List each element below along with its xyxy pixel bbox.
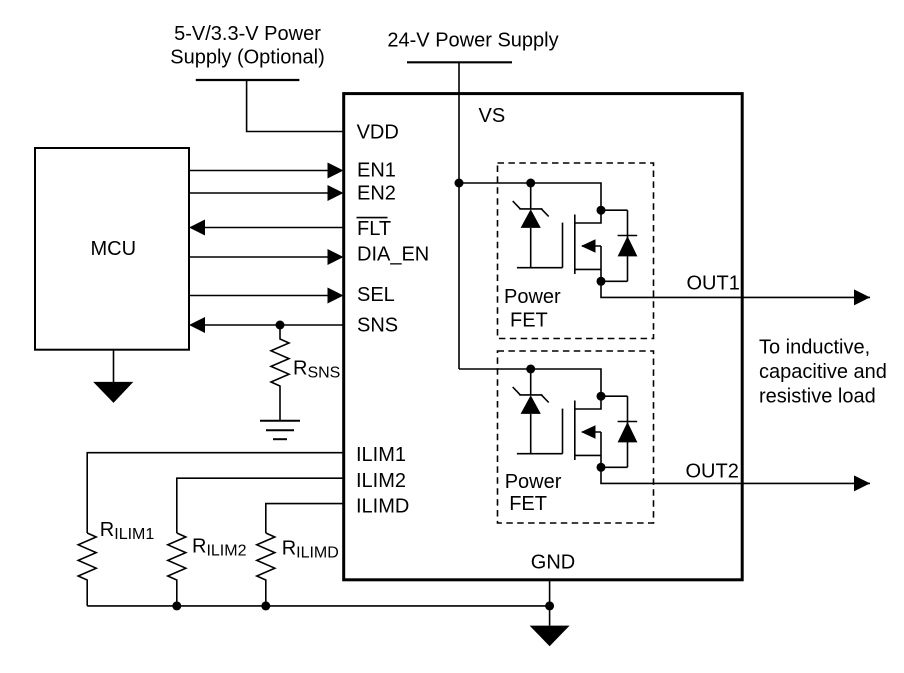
wire Q1 source to OUT1 [601, 246, 870, 297]
node VS tap FET1 [455, 179, 464, 188]
wire 5-V supply to VDD [247, 80, 344, 132]
transistor Q1 source stub [575, 268, 601, 270]
node Q2 source [597, 463, 606, 472]
zener diode Z2 [513, 369, 549, 454]
wire ILIM2 [177, 478, 344, 533]
wire zener2 anode to gate [517, 453, 563, 455]
node zener2 top [526, 365, 535, 374]
label 5-V/3.3-V power supply [170, 23, 325, 69]
wire EN1 [189, 163, 344, 179]
label Power FET 1 [504, 286, 561, 331]
svg-text:SNS: SNS [357, 315, 398, 337]
wire Q2 source to OUT2 [601, 432, 870, 483]
svg-text:VDD: VDD [357, 122, 399, 144]
node SNS tap [276, 321, 285, 330]
svg-text:GND: GND [531, 551, 575, 573]
transistor Q1 gate [562, 223, 564, 268]
transistor Q2 source stub [575, 454, 601, 456]
label Power FET 2 [505, 471, 562, 515]
transistor Q2 substrate arrow [581, 425, 601, 439]
resistor RILIMD [257, 533, 275, 606]
svg-text:EN2: EN2 [357, 183, 396, 205]
wire VS vertical [458, 62, 460, 369]
svg-text:capacitive and: capacitive and [759, 361, 887, 383]
svg-text:24-V Power Supply: 24-V Power Supply [387, 29, 558, 51]
transistor Q2 channel [574, 401, 576, 461]
node Q1 drain [597, 206, 606, 215]
wire SNS [189, 317, 344, 333]
svg-text:FLT: FLT [357, 218, 391, 240]
pin FLT with overline [357, 218, 392, 240]
24-V power supply bar [407, 61, 512, 63]
node zener1 top [526, 179, 535, 188]
body diode D2 [618, 396, 638, 467]
svg-text:ILIM1: ILIM1 [356, 444, 406, 466]
node Q2 drain [597, 392, 606, 401]
svg-text:Power: Power [504, 286, 561, 308]
svg-text:OUT1: OUT1 [687, 273, 740, 295]
wire ILIMD [266, 504, 344, 533]
wire diode D2 bottom connector [601, 466, 628, 468]
wire FET1 drain feed [459, 183, 601, 223]
node bus RILIM2 [172, 601, 181, 610]
wire SEL [189, 288, 344, 304]
svg-text:Power: Power [505, 471, 562, 493]
wire DIA_EN [189, 249, 344, 265]
arrow OUT2 [854, 475, 870, 491]
5-V power supply bar [196, 79, 300, 81]
svg-text:EN1: EN1 [357, 160, 396, 182]
ground under MCU [93, 350, 133, 403]
svg-text:FET: FET [510, 309, 548, 331]
svg-text:DIA_EN: DIA_EN [357, 244, 429, 266]
svg-text:5-V/3.3-V Power: 5-V/3.3-V Power [174, 23, 321, 45]
node Q1 source [597, 277, 606, 286]
arrow OUT1 [854, 289, 870, 305]
resistor RSNS [271, 325, 289, 421]
svg-text:ILIM2: ILIM2 [356, 470, 406, 492]
wire FET2 drain feed [459, 369, 601, 409]
svg-text:To inductive,: To inductive, [759, 337, 870, 359]
dashed box Power FET 2 [498, 351, 654, 523]
wire diode D1 top connector [601, 209, 628, 211]
wire EN2 [189, 185, 344, 201]
svg-text:SEL: SEL [357, 284, 395, 306]
resistor RILIM1 [78, 533, 96, 606]
svg-text:OUT2: OUT2 [686, 461, 739, 483]
svg-text:FET: FET [509, 493, 547, 515]
node GND [545, 601, 554, 610]
transistor Q1 substrate arrow [581, 239, 601, 253]
label load note [759, 337, 887, 408]
IC box [344, 94, 743, 580]
MCU box [35, 148, 189, 350]
resistor RILIM2 [168, 533, 186, 606]
wire ILIM1 [87, 453, 344, 533]
earth ground under RSNS [260, 421, 300, 439]
wire GND stub [549, 580, 551, 626]
ground GND triangle [530, 626, 570, 647]
wire bottom bus [87, 605, 549, 607]
dashed box Power FET 1 [498, 163, 654, 339]
wire FLT [189, 220, 344, 236]
svg-text:Supply (Optional): Supply (Optional) [170, 47, 325, 69]
wire zener1 anode to gate [517, 267, 563, 269]
body diode D1 [618, 210, 638, 281]
svg-text:ILIMD: ILIMD [356, 496, 409, 518]
transistor Q2 gate [562, 409, 564, 454]
transistor Q1 channel [574, 215, 576, 275]
node bus RILIMD [261, 601, 270, 610]
svg-text:MCU: MCU [91, 238, 137, 260]
zener diode Z1 [513, 183, 549, 268]
svg-text:VS: VS [479, 105, 506, 127]
wire diode D1 bottom connector [601, 280, 628, 282]
wire diode D2 top connector [601, 395, 628, 397]
svg-text:resistive load: resistive load [759, 386, 876, 408]
